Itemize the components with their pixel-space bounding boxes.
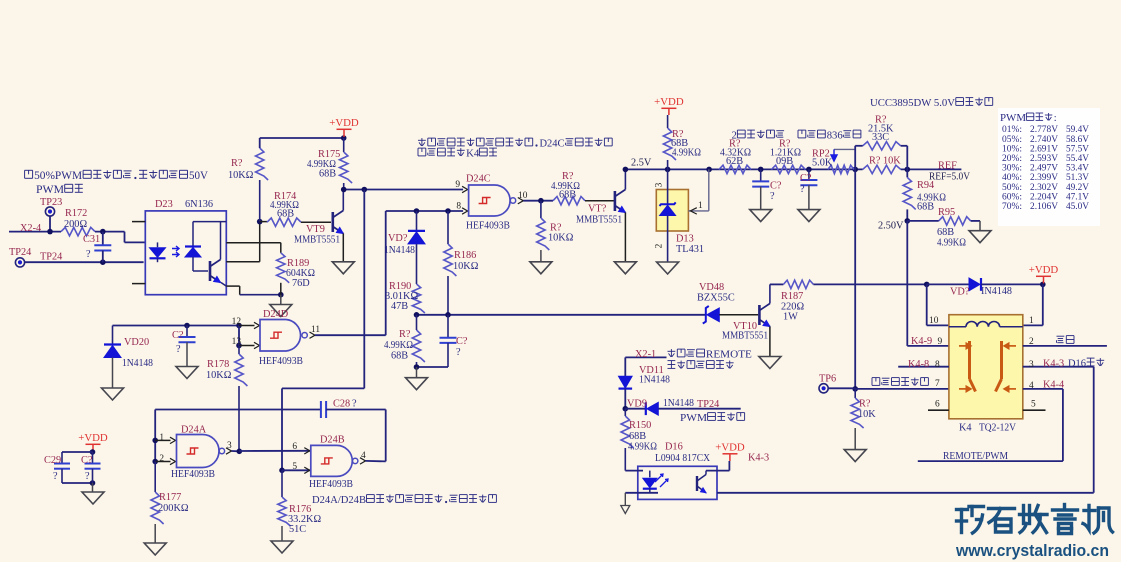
svg-text:K4: K4 [959, 423, 972, 434]
svg-text:200Ω: 200Ω [64, 219, 87, 230]
svg-text:D16: D16 [1068, 358, 1087, 370]
svg-text:TQ2-12V: TQ2-12V [979, 423, 1017, 434]
svg-text:68B: 68B [391, 351, 408, 362]
svg-text:1: 1 [159, 433, 164, 443]
svg-text:33C: 33C [872, 132, 889, 143]
svg-text:X2-4: X2-4 [20, 223, 41, 234]
svg-text:51C: 51C [289, 524, 306, 535]
svg-text:R95: R95 [938, 207, 955, 218]
svg-text:6N136: 6N136 [185, 199, 213, 210]
svg-text:C29: C29 [44, 455, 61, 466]
svg-text:8: 8 [456, 202, 461, 212]
svg-text:1N4148: 1N4148 [663, 398, 694, 409]
svg-text:VT9: VT9 [306, 224, 325, 235]
svg-text:X2-1: X2-1 [635, 349, 656, 360]
svg-text:L0904 817CX: L0904 817CX [655, 453, 711, 464]
svg-text:PWM: PWM [680, 412, 707, 424]
svg-text:2.5V: 2.5V [631, 158, 652, 169]
svg-text:C28: C28 [333, 399, 350, 410]
svg-text:2: 2 [159, 454, 164, 464]
svg-text:10KΩ: 10KΩ [206, 370, 232, 381]
svg-text:2: 2 [655, 243, 665, 248]
svg-text:TP24: TP24 [40, 252, 62, 263]
svg-text:K4: K4 [466, 148, 480, 160]
svg-text:D24A: D24A [181, 425, 207, 436]
svg-text:4.99KΩ: 4.99KΩ [937, 238, 966, 249]
svg-text:6: 6 [935, 400, 940, 410]
svg-text:D24A/D24B: D24A/D24B [312, 494, 366, 506]
svg-text:2.106V: 2.106V [1030, 201, 1058, 212]
svg-text:HEF4093B: HEF4093B [259, 356, 303, 367]
svg-text:?: ? [352, 399, 357, 410]
svg-text:2.50V: 2.50V [878, 221, 904, 232]
svg-text:?: ? [86, 249, 91, 260]
svg-text:?: ? [770, 191, 775, 202]
svg-text:MMBT5551: MMBT5551 [722, 331, 768, 342]
svg-text:50V: 50V [189, 170, 208, 182]
svg-text:IN4148: IN4148 [981, 286, 1012, 297]
svg-text:D24C: D24C [466, 174, 491, 185]
svg-text:70%:: 70%: [1002, 201, 1022, 212]
svg-text:09B: 09B [776, 156, 793, 167]
svg-text:?: ? [176, 344, 181, 355]
svg-text:4: 4 [361, 451, 366, 461]
svg-text:MMBT5551: MMBT5551 [576, 215, 622, 226]
svg-text:C31: C31 [83, 234, 100, 245]
svg-text:K4-4: K4-4 [1043, 380, 1064, 391]
svg-text:PWM: PWM [1000, 113, 1026, 124]
svg-text:4.99KΩ: 4.99KΩ [672, 148, 701, 159]
svg-text:?: ? [53, 471, 58, 482]
svg-text:5: 5 [1031, 400, 1036, 410]
svg-text:R172: R172 [65, 208, 87, 219]
svg-text:D24B: D24B [320, 435, 345, 446]
svg-text:10KΩ: 10KΩ [228, 170, 254, 181]
svg-text:R?: R? [399, 329, 411, 340]
svg-text:REMOTE: REMOTE [706, 349, 752, 361]
svg-text:www.crystalradio.cn: www.crystalradio.cn [955, 542, 1109, 560]
svg-text:TP24: TP24 [697, 399, 719, 410]
svg-text:50%PWM: 50%PWM [34, 170, 82, 182]
svg-text:9: 9 [938, 337, 943, 347]
svg-text:10: 10 [518, 191, 528, 201]
svg-text:R187: R187 [781, 291, 803, 302]
svg-text:68B: 68B [917, 202, 934, 213]
svg-text:5.0K: 5.0K [812, 158, 833, 169]
svg-text:?: ? [85, 471, 90, 482]
svg-text:HEF4093B: HEF4093B [171, 469, 215, 480]
svg-text:C?: C? [172, 330, 184, 341]
svg-text:10KΩ: 10KΩ [453, 261, 479, 272]
svg-text:R150: R150 [629, 420, 651, 431]
svg-text:45.0V: 45.0V [1066, 201, 1089, 212]
svg-text:4.99KΩ: 4.99KΩ [628, 442, 657, 453]
svg-text:PWM: PWM [36, 184, 64, 196]
svg-text:REMOTE/PWM: REMOTE/PWM [943, 451, 1008, 462]
svg-text:76D: 76D [292, 278, 310, 289]
svg-text:VT?: VT? [588, 204, 607, 215]
svg-text:REF=5.0V: REF=5.0V [929, 172, 971, 183]
svg-text:D24C: D24C [540, 138, 565, 150]
svg-text:+VDD: +VDD [329, 117, 359, 129]
svg-text:VD?: VD? [388, 233, 408, 244]
svg-text:TP23: TP23 [40, 197, 62, 208]
svg-text:VD9: VD9 [627, 399, 647, 410]
svg-text:12: 12 [232, 317, 242, 327]
svg-text:D23: D23 [155, 199, 173, 210]
svg-text:K4-3: K4-3 [1043, 359, 1064, 370]
svg-text:47B: 47B [391, 301, 408, 312]
svg-text:D24D: D24D [263, 309, 289, 320]
svg-text:?: ? [800, 184, 805, 195]
svg-text:TL431: TL431 [676, 244, 704, 255]
svg-text:68B: 68B [629, 431, 646, 442]
svg-text:4.99KΩ: 4.99KΩ [384, 340, 413, 351]
svg-text:UCC3895DW 5.0V: UCC3895DW 5.0V [870, 97, 955, 109]
svg-text:10K: 10K [858, 409, 876, 420]
svg-text:3: 3 [227, 441, 232, 451]
svg-text:R? 10K: R? 10K [869, 156, 901, 167]
svg-text:D13: D13 [676, 234, 694, 245]
svg-text:K4-8: K4-8 [908, 359, 929, 370]
svg-text:R177: R177 [159, 492, 181, 503]
svg-text:836: 836 [827, 130, 844, 142]
svg-text:REF: REF [938, 161, 957, 172]
svg-text:TP6: TP6 [819, 374, 836, 385]
svg-text:68B: 68B [559, 190, 576, 201]
svg-text:VD48: VD48 [699, 282, 724, 293]
svg-text:MMBT5551: MMBT5551 [294, 235, 340, 246]
svg-text:8: 8 [935, 360, 940, 370]
svg-text:3: 3 [1029, 360, 1034, 370]
svg-text:C?: C? [770, 181, 782, 192]
svg-text:C?: C? [81, 455, 93, 466]
svg-text:K4-3: K4-3 [748, 453, 769, 464]
svg-text:11: 11 [311, 325, 320, 335]
svg-text:+VDD: +VDD [1029, 264, 1059, 276]
svg-text:1W: 1W [783, 312, 798, 323]
svg-text:D16: D16 [665, 442, 683, 453]
svg-text:C?: C? [456, 336, 468, 347]
svg-text::: : [1054, 113, 1057, 124]
svg-text:1: 1 [698, 201, 703, 211]
svg-text:68B: 68B [937, 227, 954, 238]
svg-text:BZX55C: BZX55C [697, 293, 735, 304]
svg-text:9: 9 [455, 180, 460, 190]
svg-text:HEF4093B: HEF4093B [466, 221, 510, 232]
svg-text:10: 10 [929, 316, 939, 326]
svg-text:1N4148: 1N4148 [639, 375, 670, 386]
svg-text:1N4148: 1N4148 [384, 245, 415, 256]
svg-text:68B: 68B [277, 209, 294, 220]
svg-text:1N4148: 1N4148 [122, 358, 153, 369]
svg-text:R?: R? [231, 158, 243, 169]
svg-text:R?: R? [859, 399, 871, 410]
svg-text:4: 4 [1029, 381, 1034, 391]
svg-text:TP24: TP24 [9, 247, 31, 258]
svg-text:10KΩ: 10KΩ [548, 233, 574, 244]
svg-text:+VDD: +VDD [715, 442, 745, 454]
svg-text:2: 2 [1029, 337, 1034, 347]
svg-text:+VDD: +VDD [654, 96, 684, 108]
svg-text:R178: R178 [207, 359, 229, 370]
svg-text:VD?: VD? [950, 287, 970, 298]
svg-text:VD20: VD20 [124, 337, 149, 348]
svg-text:68B: 68B [319, 169, 336, 180]
svg-text:5: 5 [292, 462, 297, 472]
svg-text:13: 13 [232, 337, 242, 347]
svg-text:+VDD: +VDD [78, 432, 108, 444]
svg-text:R94: R94 [917, 180, 934, 191]
svg-text:3: 3 [655, 182, 665, 187]
svg-text:62B: 62B [726, 156, 743, 167]
svg-text:200KΩ: 200KΩ [158, 503, 189, 514]
svg-text:1: 1 [1029, 316, 1034, 326]
svg-text:R186: R186 [454, 250, 476, 261]
svg-text:K4-9: K4-9 [911, 336, 932, 347]
svg-text:?: ? [456, 347, 461, 358]
svg-text:C?: C? [800, 173, 812, 184]
svg-text:6: 6 [292, 442, 297, 452]
svg-text:HEF4093B: HEF4093B [309, 479, 353, 490]
svg-text:7: 7 [935, 379, 940, 389]
